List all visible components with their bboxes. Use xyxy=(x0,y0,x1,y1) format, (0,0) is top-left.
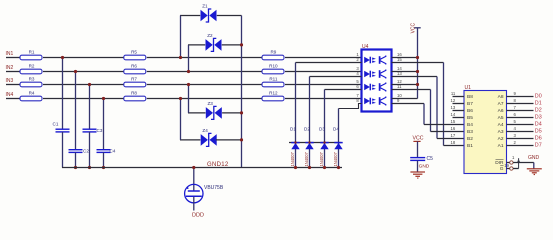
opto U4 channel 1 xyxy=(364,55,386,64)
svg-text:GND: GND xyxy=(419,164,430,170)
U1 pin 9 stub xyxy=(507,96,534,98)
chip U1 body xyxy=(464,91,507,174)
capacitor C2 xyxy=(69,149,90,154)
svg-text:A1: A1 xyxy=(498,143,504,149)
svg-text:D4: D4 xyxy=(535,122,542,128)
wire pin15-B1 vertical xyxy=(443,63,445,146)
svg-text:A8: A8 xyxy=(498,94,504,100)
wire pin9-B4 to U1 xyxy=(424,124,464,126)
svg-text:R2: R2 xyxy=(29,64,35,69)
svg-text:D1: D1 xyxy=(535,101,542,107)
wire pin11-B3 horizontal xyxy=(392,89,431,91)
wire D4 vertical xyxy=(338,109,340,168)
wire pin16-VCC xyxy=(392,57,418,59)
wire Z3 left riser xyxy=(188,85,190,113)
U1 pin 12 stub xyxy=(453,103,465,105)
resistor R6 xyxy=(124,69,146,74)
svg-text:12: 12 xyxy=(451,98,456,103)
svg-text:GND: GND xyxy=(528,155,540,161)
svg-text:A7: A7 xyxy=(498,101,504,107)
U1 pin 1 stub xyxy=(507,162,510,164)
svg-text:DDD: DDD xyxy=(192,213,204,219)
svg-text:D3: D3 xyxy=(535,115,542,121)
wire Z3 right stub xyxy=(222,112,241,114)
svg-text:A2: A2 xyxy=(498,136,504,142)
svg-text:19: 19 xyxy=(504,163,509,168)
wire Z1 left drop xyxy=(180,16,182,58)
junction Z3/row3 xyxy=(187,83,190,86)
svg-text:R3: R3 xyxy=(29,77,35,82)
svg-text:B8: B8 xyxy=(467,94,473,100)
svg-text:R11: R11 xyxy=(269,77,278,82)
junction Z2/common xyxy=(240,43,243,46)
zener Z1 xyxy=(201,4,217,23)
zener Z3 xyxy=(206,101,222,120)
svg-text:GND12: GND12 xyxy=(207,162,229,168)
ground symbol C5 xyxy=(410,172,425,178)
wire diode cathode rail xyxy=(289,142,341,144)
U1 pin 19 stub xyxy=(507,168,510,170)
junction Z2/row2 xyxy=(187,70,190,73)
ground symbol right xyxy=(527,169,542,175)
junction bus/D3 xyxy=(323,166,326,169)
wire C4 bottom xyxy=(103,152,105,167)
diode D1 xyxy=(290,127,300,167)
wire pin13-B2 vertical xyxy=(436,77,438,139)
svg-text:D2: D2 xyxy=(535,108,542,114)
capacitor C3 xyxy=(83,128,103,133)
svg-text:A3: A3 xyxy=(498,129,504,135)
junction bus/D1 xyxy=(294,166,297,169)
wire C1 top xyxy=(62,58,64,130)
junction bus/C3 xyxy=(88,166,91,169)
svg-text:D7: D7 xyxy=(535,143,542,149)
svg-text:IN1: IN1 xyxy=(6,51,14,57)
junction Z4/common xyxy=(240,138,243,141)
svg-text:C1: C1 xyxy=(53,122,59,127)
wire row2 R6-R10 xyxy=(147,71,262,73)
wire IN3 stub xyxy=(6,84,20,86)
U1 pin 7 stub xyxy=(507,110,534,112)
wire Z4 right stub xyxy=(216,139,242,141)
diode D4 xyxy=(333,127,343,167)
svg-text:R1: R1 xyxy=(29,50,35,55)
resistor R1 xyxy=(20,55,42,60)
switch lever xyxy=(517,158,520,168)
wire pin4-D2 xyxy=(310,76,362,78)
wire Z4 left stub xyxy=(180,139,200,141)
svg-text:1N4007: 1N4007 xyxy=(290,151,295,166)
svg-text:IN2: IN2 xyxy=(6,65,14,71)
junction Z3/common xyxy=(240,111,243,114)
junction rail/D2 xyxy=(308,141,310,143)
svg-text:R12: R12 xyxy=(269,91,278,96)
junction rail/D3 xyxy=(323,141,325,143)
diode D2 xyxy=(304,127,314,167)
svg-text:G: G xyxy=(500,166,504,172)
resistor R8 xyxy=(124,96,146,101)
svg-text:18: 18 xyxy=(451,140,456,145)
wire battery tap xyxy=(193,168,195,191)
U1 DIR overline xyxy=(496,159,504,161)
junction VCC/pin12 xyxy=(416,83,419,86)
wire pin14-VCC xyxy=(392,71,418,73)
wire row4 R4-R8 xyxy=(43,98,124,100)
wire VCC rail xyxy=(417,28,419,99)
U1 pin 14 stub xyxy=(453,117,465,119)
wire C4 top xyxy=(103,99,105,150)
wire C5-GND xyxy=(417,161,419,172)
wire row3 R11-U4 xyxy=(285,84,362,86)
wire D2 vertical xyxy=(309,77,311,168)
svg-text:16: 16 xyxy=(451,126,456,131)
resistor R2 xyxy=(20,69,42,74)
junction bus/battery xyxy=(192,166,195,169)
wire row3 R3-R7 xyxy=(43,84,124,86)
wire Z2 left drop xyxy=(188,45,190,72)
wire lower contact-lever xyxy=(513,168,519,170)
svg-text:B6: B6 xyxy=(467,108,473,114)
power port VCC2 xyxy=(413,136,424,142)
wire Z2 left stub xyxy=(188,44,205,46)
wire C3 bottom xyxy=(89,132,91,168)
wire row2 R10-U4 xyxy=(285,71,362,73)
wire D3 vertical xyxy=(324,90,326,168)
svg-text:VCC: VCC xyxy=(411,22,417,33)
svg-text:D5: D5 xyxy=(535,129,542,135)
power port VCC top xyxy=(411,22,421,33)
U1 pin 5 stub xyxy=(507,124,534,126)
junction Z1/row1 xyxy=(179,56,182,59)
junction bus/C2 xyxy=(74,166,77,169)
wire pin13-B2 horizontal xyxy=(392,76,438,78)
svg-text:IN4: IN4 xyxy=(6,92,14,98)
wire zener common vertical xyxy=(241,16,243,168)
svg-text:R7: R7 xyxy=(131,77,137,82)
svg-text:C2: C2 xyxy=(83,149,89,154)
wire pin9-B4 vertical xyxy=(423,104,425,125)
wire C1 bottom xyxy=(62,132,64,168)
svg-text:B3: B3 xyxy=(467,129,473,135)
junction bus/D2 xyxy=(308,166,311,169)
svg-text:17: 17 xyxy=(451,133,456,138)
capacitor C4 xyxy=(97,149,116,154)
opto U4 channel 3 xyxy=(364,82,386,91)
wire Z4 left riser xyxy=(180,99,182,140)
svg-text:B4: B4 xyxy=(467,122,473,128)
svg-text:U4: U4 xyxy=(362,44,369,50)
svg-text:Z4: Z4 xyxy=(202,128,208,133)
svg-text:D0: D0 xyxy=(535,94,542,100)
wire VCC2-C5 xyxy=(417,141,419,157)
svg-text:14: 14 xyxy=(451,112,456,117)
opto U4 box xyxy=(362,50,392,112)
svg-text:IN3: IN3 xyxy=(6,78,14,84)
svg-text:D3: D3 xyxy=(319,127,325,132)
svg-text:1N4007: 1N4007 xyxy=(333,151,338,166)
junction row4/C4 xyxy=(102,97,105,100)
U1 pin 11 stub xyxy=(453,96,465,98)
svg-text:13: 13 xyxy=(451,105,456,110)
junction row1/C1 xyxy=(61,56,64,59)
resistor R11 xyxy=(262,82,284,87)
capacitor C5 xyxy=(410,156,433,162)
svg-text:D1: D1 xyxy=(290,127,296,132)
svg-text:VCC: VCC xyxy=(413,136,424,142)
wire pin11-B3 vertical xyxy=(430,90,432,132)
U1 pin 4 stub xyxy=(507,131,534,133)
wire pin10-VCC xyxy=(392,98,418,100)
svg-text:1N4007: 1N4007 xyxy=(304,151,309,166)
svg-text:B2: B2 xyxy=(467,136,473,142)
U1 pin 2 stub xyxy=(507,145,534,147)
wire Z2 right stub xyxy=(222,44,242,46)
junction row2/C2 xyxy=(74,70,77,73)
svg-text:DIR: DIR xyxy=(495,160,504,166)
wire Z1 right stub xyxy=(217,15,242,17)
svg-text:C5: C5 xyxy=(427,156,434,162)
svg-text:C4: C4 xyxy=(110,149,116,154)
junction VCC/pin16 xyxy=(416,56,419,59)
capacitor C1 xyxy=(53,122,70,132)
svg-text:Z3: Z3 xyxy=(208,101,214,106)
svg-text:15: 15 xyxy=(451,119,456,124)
wire C3 top xyxy=(89,85,91,130)
junction rail/D1 xyxy=(294,141,296,143)
wire IN1 stub xyxy=(6,57,20,59)
svg-text:D6: D6 xyxy=(535,136,542,142)
wire Z3 left stub xyxy=(188,112,206,114)
svg-text:VBU75B: VBU75B xyxy=(204,185,224,191)
opto U4 channel 4 xyxy=(364,96,386,105)
switch contact lower xyxy=(510,167,513,170)
svg-text:D2: D2 xyxy=(304,127,310,132)
svg-text:A6: A6 xyxy=(498,108,504,114)
wire row1 R5-R9 xyxy=(147,57,262,59)
junction row3/C3 xyxy=(88,83,91,86)
wire upper contact-GND xyxy=(513,162,534,164)
resistor R12 xyxy=(262,96,284,101)
resistor R3 xyxy=(20,82,42,87)
zener Z2 xyxy=(206,33,222,52)
wire C2 top xyxy=(75,72,77,150)
U1 pin 13 stub xyxy=(453,110,465,112)
svg-text:C3: C3 xyxy=(97,128,103,133)
wire pin13-B2 to U1 xyxy=(437,138,464,140)
wire pin9-B4 horizontal xyxy=(392,103,425,105)
zener Z4 xyxy=(201,128,217,147)
svg-text:U1: U1 xyxy=(465,85,472,91)
svg-text:A4: A4 xyxy=(498,122,504,128)
wire pin2-D1 xyxy=(296,62,362,64)
diode D3 xyxy=(319,127,329,167)
wire pin11-B3 to U1 xyxy=(431,131,465,133)
svg-text:R8: R8 xyxy=(131,91,137,96)
svg-text:1N4007: 1N4007 xyxy=(319,151,324,166)
svg-text:D4: D4 xyxy=(333,127,339,132)
svg-text:R9: R9 xyxy=(270,50,276,55)
junction VCC/pin14 xyxy=(416,70,419,73)
wire row4 R8-R12 xyxy=(147,98,262,100)
svg-text:B5: B5 xyxy=(467,115,473,121)
resistor R10 xyxy=(262,69,284,74)
wire pin12-VCC xyxy=(392,84,418,86)
resistor R4 xyxy=(20,96,42,101)
U1 pin 3 stub xyxy=(507,138,534,140)
junction bus/D4 xyxy=(337,166,340,169)
wire pin15-B1 to U1 xyxy=(444,145,465,147)
junction Z4/row4 xyxy=(179,97,182,100)
wire IN2 stub xyxy=(6,71,20,73)
wire pin15-B1 horizontal xyxy=(392,62,444,64)
wire C2 bottom xyxy=(75,152,77,167)
wire pin6-D3 xyxy=(325,89,362,91)
wire row3 R7-R11 xyxy=(147,84,262,86)
battery VBU75B xyxy=(185,184,203,210)
wire D1 vertical xyxy=(295,63,297,168)
svg-text:Z2: Z2 xyxy=(207,33,213,38)
svg-text:B1: B1 xyxy=(467,143,473,149)
wire row2 R2-R6 xyxy=(43,71,124,73)
wire IN4 stub xyxy=(6,98,20,100)
wire row1 R1-R5 xyxy=(43,57,124,59)
resistor R7 xyxy=(124,82,146,87)
svg-text:R10: R10 xyxy=(269,64,278,69)
svg-text:R6: R6 xyxy=(131,64,137,69)
U1 G overline xyxy=(500,165,503,167)
svg-text:R5: R5 xyxy=(131,50,137,55)
wire row1 R9-U4 xyxy=(285,57,362,59)
U1 pin 6 stub xyxy=(507,117,534,119)
wire GND12 bus xyxy=(62,167,342,169)
wire row4 R12-U4 xyxy=(285,98,362,100)
svg-text:R4: R4 xyxy=(29,91,35,96)
wire Z1 left stub xyxy=(180,15,200,17)
svg-text:B7: B7 xyxy=(467,101,473,107)
svg-text:11: 11 xyxy=(451,91,456,96)
wire GND drop xyxy=(533,163,535,169)
resistor R5 xyxy=(124,55,146,60)
svg-text:A5: A5 xyxy=(498,115,504,121)
junction bus/C4 xyxy=(102,166,105,169)
opto U4 channel 2 xyxy=(364,69,386,78)
U1 pin 8 stub xyxy=(507,103,534,105)
svg-text:Z1: Z1 xyxy=(202,4,208,9)
wire pin8 jog xyxy=(339,104,362,109)
switch contact upper xyxy=(510,161,513,164)
resistor R9 xyxy=(262,55,284,60)
